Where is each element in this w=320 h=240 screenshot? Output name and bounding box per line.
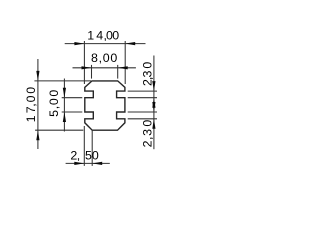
dim 8,00 left extension bbox=[91, 65, 93, 79]
dim 2,50 left extension bbox=[83, 126, 85, 166]
svg-text:2,30: 2,30 bbox=[141, 119, 155, 147]
dim 8,00 left arrow bbox=[82, 66, 92, 69]
svg-text:5,00: 5,00 bbox=[47, 89, 61, 117]
dim 2,30 upper down arrow bbox=[152, 81, 155, 91]
dim 14,00 right arrow bbox=[125, 42, 135, 45]
dim 14,00 left arrow bbox=[74, 42, 84, 45]
svg-text:14,00: 14,00 bbox=[87, 29, 119, 43]
dim 14,00 right extension bbox=[124, 41, 126, 84]
dim 8,00 line bbox=[73, 67, 136, 69]
dim 2,30 lower down arrow bbox=[152, 102, 155, 112]
svg-text:2,50: 2,50 bbox=[70, 148, 99, 162]
dim 5,00 lower extension bbox=[62, 111, 83, 113]
dim 17,00 bottom extension bbox=[35, 129, 83, 131]
dim 17,00 top extension bbox=[34, 80, 91, 82]
dim 5,00 line bbox=[63, 79, 65, 132]
dim 14,00 left extension bbox=[83, 41, 85, 84]
dim 5,00 bottom arrow bbox=[63, 112, 66, 122]
dim 17,00 bottom arrow bbox=[36, 130, 39, 140]
profile outline bbox=[85, 81, 125, 130]
dim 2,30 lower up arrow bbox=[152, 119, 155, 129]
right notch extension lines bbox=[128, 90, 157, 92]
svg-text:2,30: 2,30 bbox=[141, 61, 155, 86]
svg-text:8,00: 8,00 bbox=[91, 51, 118, 65]
dim 8,00 right arrow bbox=[118, 66, 128, 69]
dim 5,00 top arrow bbox=[63, 88, 66, 98]
dim 2,30 upper up arrow bbox=[152, 98, 155, 108]
dim 2,50 line bbox=[66, 162, 110, 164]
dim 2,50 right extension bbox=[91, 131, 93, 166]
dim 17,00 top arrow bbox=[36, 71, 39, 81]
dim 17,00 line bbox=[37, 59, 39, 149]
svg-text:17,00: 17,00 bbox=[24, 86, 38, 122]
dim 2,30 shared line bbox=[153, 56, 155, 150]
dim 5,00 upper extension bbox=[62, 97, 83, 99]
dim 2,50 right arrow bbox=[92, 162, 102, 165]
dim 8,00 right extension bbox=[117, 65, 119, 79]
dim 2,50 left arrow bbox=[74, 162, 84, 165]
dim 14,00 line bbox=[65, 43, 146, 45]
